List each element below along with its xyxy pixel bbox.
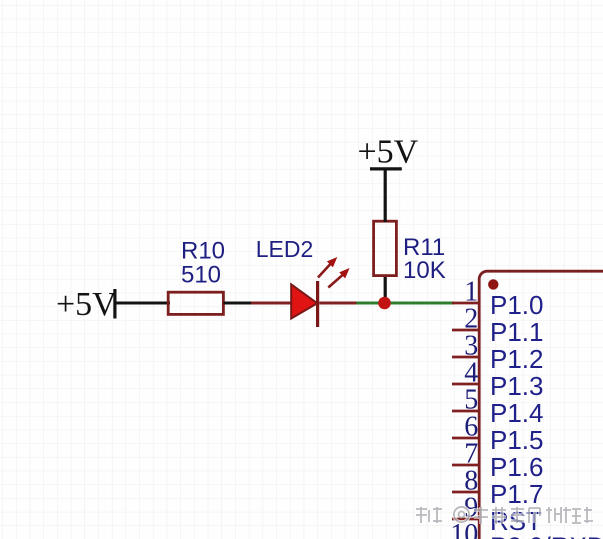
svg-text:P1.5: P1.5 (490, 425, 544, 455)
svg-text:P3.0/RXD: P3.0/RXD (490, 532, 603, 539)
IC U1 outline (479, 271, 603, 539)
wire +5V top to R11 (384, 169, 387, 222)
LED LED2 cathode pin (319, 302, 357, 305)
pin 4 stub (452, 383, 479, 386)
svg-text:P1.0: P1.0 (490, 290, 544, 320)
pin 8 stub (452, 491, 479, 494)
svg-text:P1.2: P1.2 (490, 344, 544, 374)
svg-text:P1.7: P1.7 (490, 479, 544, 509)
watermark 知乎 @华维单片机编程 (approximated strokes) (416, 507, 593, 524)
pin 5 stub (452, 410, 479, 413)
svg-text:510: 510 (181, 262, 221, 289)
svg-text:P1.3: P1.3 (490, 371, 544, 401)
svg-text:+5V: +5V (358, 134, 419, 171)
IC pin-1 marker dot (488, 279, 498, 289)
svg-text:P1.1: P1.1 (490, 317, 544, 347)
LED light arrows (318, 257, 350, 288)
wire R10 to LED (223, 302, 252, 305)
pin 6 stub (452, 437, 479, 440)
LED LED2 anode pin (251, 302, 291, 305)
svg-text:P1.6: P1.6 (490, 452, 544, 482)
svg-text:LED2: LED2 (256, 236, 314, 262)
resistor R10 (168, 292, 223, 314)
svg-text:R10: R10 (181, 238, 225, 265)
pin 3 stub (452, 356, 479, 359)
pin 7 stub (452, 464, 479, 467)
pin 1 stub (452, 302, 479, 305)
power port +5V (top) (358, 134, 419, 171)
LED LED2 (291, 281, 319, 327)
pin 9 stub (452, 518, 479, 521)
wire +5V to R10 (114, 302, 170, 305)
power port +5V (left) (56, 286, 117, 323)
junction node (378, 297, 391, 310)
svg-text:10K: 10K (403, 257, 446, 284)
svg-text:+5V: +5V (56, 286, 117, 323)
svg-text:P1.4: P1.4 (490, 398, 544, 428)
pin 2 stub (452, 329, 479, 332)
wire net LED to pin 1 (green) (357, 302, 455, 305)
wire R11 bottom to junction (384, 276, 387, 303)
resistor R11 (374, 221, 397, 275)
